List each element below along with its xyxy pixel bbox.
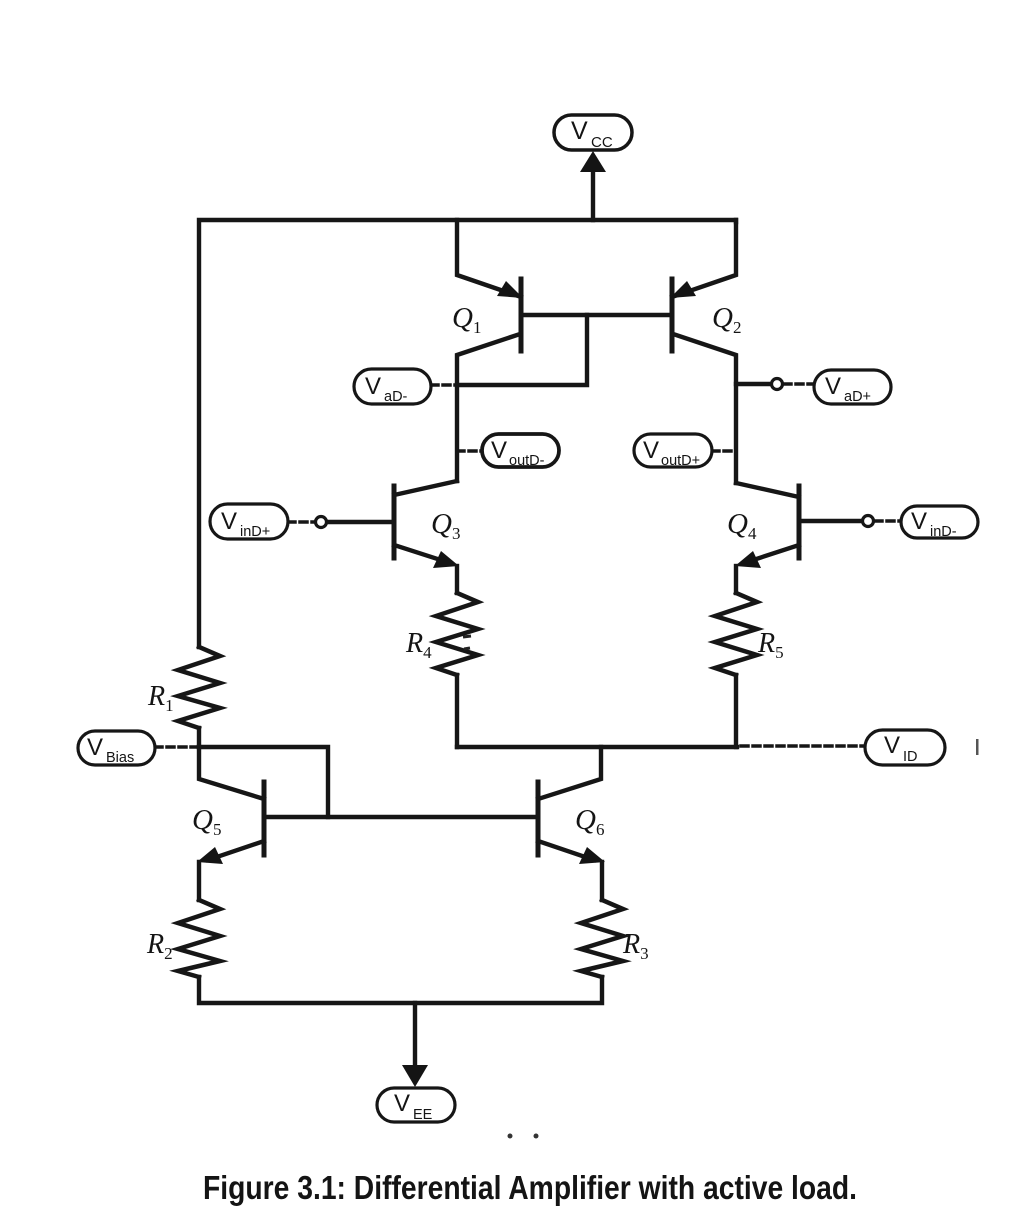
label R1	[147, 681, 174, 715]
label VID	[865, 730, 945, 765]
node VCC arrow	[580, 151, 606, 172]
transistor Q3	[394, 481, 459, 593]
wire bottom rail	[199, 977, 602, 1003]
label Q6	[575, 804, 604, 839]
svg-text:CC: CC	[591, 134, 613, 151]
node stray dots	[508, 1134, 513, 1139]
node VEE arrow	[402, 1065, 428, 1087]
transistor Q5	[197, 747, 264, 900]
wire R5 to rail	[734, 675, 738, 747]
node VaD+ open circle	[772, 379, 783, 390]
svg-text:EE: EE	[413, 1107, 433, 1123]
node VinD+ open circle	[316, 517, 327, 528]
svg-text:V: V	[87, 734, 103, 761]
transistor Q1	[457, 220, 523, 481]
label VaD+	[814, 370, 891, 404]
label Q5	[192, 804, 221, 839]
svg-text:Figure 3.1: Differential Ampli: Figure 3.1: Differential Amplifier with …	[203, 1170, 857, 1207]
label VBias	[78, 731, 155, 765]
transistor Q6	[538, 747, 605, 900]
label VoutD+	[634, 434, 712, 467]
label VoutD-	[482, 434, 559, 467]
svg-text:inD-: inD-	[930, 524, 957, 540]
node stray tick	[976, 739, 979, 755]
label R4	[405, 628, 432, 662]
label Q4	[727, 508, 757, 543]
svg-text:ID: ID	[903, 749, 918, 765]
resistor R5	[715, 593, 757, 675]
svg-text:inD+: inD+	[240, 524, 270, 540]
svg-text:V: V	[825, 373, 841, 400]
wire Q5-Q6 base link	[264, 815, 538, 819]
label VEE	[377, 1088, 455, 1122]
label VinD+	[210, 504, 288, 539]
node VinD- open circle	[863, 516, 874, 527]
wire R4 to rail	[455, 675, 459, 747]
label Q1	[452, 302, 481, 337]
transistor Q2	[670, 220, 736, 483]
node R4 artifact dashes	[463, 636, 471, 649]
resistor R3	[581, 900, 623, 977]
svg-text:V: V	[571, 117, 588, 145]
svg-text:outD+: outD+	[661, 453, 700, 469]
label Q3	[431, 508, 460, 543]
wire Q4 base lead	[799, 519, 862, 523]
label R2	[146, 929, 173, 963]
label VinD-	[901, 506, 978, 538]
node VinD- dashed lead	[875, 519, 901, 523]
resistor R1	[178, 647, 220, 728]
wire VCC stem	[591, 168, 595, 220]
svg-text:aD+: aD+	[844, 389, 871, 405]
svg-text:aD-: aD-	[384, 389, 408, 405]
wire VaD+ lead	[736, 382, 770, 386]
wire bias node to mirror bases	[199, 747, 328, 817]
svg-text:V: V	[221, 508, 237, 535]
label R3	[622, 929, 649, 963]
svg-text:V: V	[365, 373, 381, 400]
node VBias dashed lead	[155, 745, 199, 749]
node VID dashed lead	[741, 744, 865, 748]
svg-text:Bias: Bias	[106, 750, 134, 766]
wire top rail	[199, 220, 736, 647]
svg-text:outD-: outD-	[509, 453, 545, 469]
resistor R4	[436, 593, 478, 675]
wire emitter rail	[457, 745, 737, 749]
node VaD- dashed lead	[431, 383, 457, 387]
label R5	[757, 628, 784, 662]
label Q2	[712, 302, 741, 337]
svg-text:V: V	[491, 437, 507, 464]
node VoutD+ dashed lead	[712, 449, 736, 453]
resistor R2	[178, 900, 220, 977]
node VoutD- dashed lead	[457, 449, 482, 453]
node VaD+ dashed lead	[784, 382, 814, 386]
svg-text:V: V	[911, 508, 927, 535]
label VCC	[554, 115, 632, 150]
wire base-collector tie of Q1	[457, 315, 587, 385]
transistor Q4	[735, 483, 799, 593]
svg-text:V: V	[394, 1090, 410, 1117]
wire VEE stem	[413, 1003, 417, 1066]
node VinD+ dashed lead	[288, 520, 315, 524]
svg-text:V: V	[643, 437, 659, 464]
wire Q3 base lead	[327, 520, 394, 524]
wire Q1-Q2 base link	[521, 313, 672, 317]
label VaD-	[354, 369, 431, 404]
svg-text:V: V	[884, 732, 900, 759]
wire R1 to bias node	[197, 728, 201, 747]
